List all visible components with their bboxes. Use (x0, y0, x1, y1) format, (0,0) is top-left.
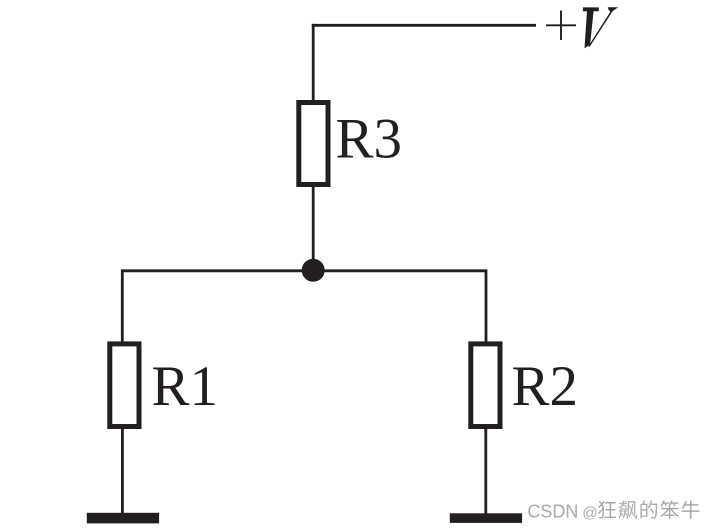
svg-text:R3: R3 (336, 108, 403, 171)
node: junction dot (302, 259, 325, 282)
svg-text:@: @ (582, 505, 597, 522)
wire: R3 bottom to node (312, 185, 315, 271)
wire: R2 bottom to right ground (484, 425, 487, 514)
power +V: plus sign (546, 11, 576, 41)
svg-text:CSDN: CSDN (527, 502, 578, 522)
resistor R2 (471, 344, 500, 427)
svg-text:R2: R2 (512, 355, 579, 418)
resistor R3 (299, 103, 328, 185)
ground (right) (450, 513, 522, 523)
wire: R1 bottom to left ground (121, 425, 124, 514)
watermark CJK glyphs (drawn as paths) (598, 500, 700, 519)
power +V: V label (italic serif V drawn as path) (583, 7, 618, 48)
wire: right vertical down to R2 (485, 269, 488, 343)
wire: rail down to R3 top (312, 24, 315, 102)
wire: left vertical down to R1 (121, 269, 124, 343)
svg-text:R1: R1 (152, 355, 219, 418)
ground (left) (87, 513, 159, 524)
wire: +V supply rail (horizontal top) (312, 24, 536, 27)
resistor R1 (110, 344, 139, 427)
wire: mid horizontal (121, 269, 486, 272)
